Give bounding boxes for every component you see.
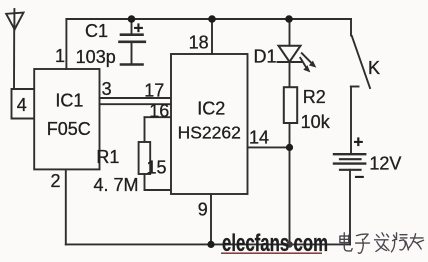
svg-text:10k: 10k <box>301 112 331 132</box>
watermark elecfans.com <box>221 230 328 257</box>
node D1 column bottom rail <box>286 241 293 248</box>
wire battery to bottom rail <box>349 170 351 245</box>
bottom rail wire <box>66 243 350 245</box>
node D1 on top rail <box>285 15 293 23</box>
IC2 box <box>171 54 248 194</box>
svg-text:16: 16 <box>149 101 169 121</box>
svg-text:R1: R1 <box>96 147 119 167</box>
antenna <box>6 9 23 30</box>
svg-text:18: 18 <box>189 33 209 53</box>
node pin9 bottom rail <box>207 241 214 248</box>
wire D1 top lead <box>289 19 291 46</box>
svg-text:3: 3 <box>102 79 112 99</box>
battery 12V <box>334 154 365 170</box>
wire pin 9 of IC2 down <box>210 194 212 244</box>
node pin14 / R2 <box>286 144 293 151</box>
wire pin 2 of IC1 down <box>65 169 67 244</box>
wire pin 15 <box>145 189 172 191</box>
svg-text:14: 14 <box>249 128 269 148</box>
svg-text:17: 17 <box>144 81 164 101</box>
wire pin 14 of IC2 <box>248 146 290 148</box>
svg-text:1: 1 <box>55 46 65 66</box>
wire R1 bottom lead <box>144 174 146 190</box>
svg-text:C1: C1 <box>85 21 108 41</box>
svg-text:103p: 103p <box>76 47 116 67</box>
IC1 U-box <box>34 69 99 169</box>
wire pin 1 of IC1 to top rail <box>65 19 67 69</box>
svg-text:12V: 12V <box>369 154 401 174</box>
node C1 on top rail <box>128 15 136 23</box>
pin 4 box of IC1 <box>12 89 35 119</box>
svg-text:9: 9 <box>198 200 208 220</box>
wire R2 to node <box>289 123 291 147</box>
switch K <box>351 19 370 154</box>
wire pin 18 of IC2 to top rail <box>211 19 213 54</box>
wire R1 top lead <box>144 117 146 142</box>
wire pin 16 box bottom <box>145 116 172 118</box>
svg-text:4. 7M: 4. 7M <box>93 175 138 195</box>
resistor R1 body <box>139 142 151 174</box>
resistor R2 body <box>284 87 297 123</box>
svg-text:F05C: F05C <box>47 119 91 139</box>
wire D1 to R2 <box>289 62 291 87</box>
svg-text:+: + <box>134 19 144 38</box>
watermark chinese characters <box>340 233 424 254</box>
svg-text:−: − <box>355 168 365 187</box>
svg-text:K: K <box>368 58 380 78</box>
wire pin 3 to pin 17 <box>100 97 172 99</box>
wire node to bottom rail <box>289 147 291 244</box>
node pin18 on top rail <box>208 15 216 23</box>
svg-text:+: + <box>353 133 363 152</box>
LED D1 <box>278 46 302 62</box>
capacitor C1 <box>120 35 145 42</box>
wire antenna stem to pin 4 <box>13 30 15 90</box>
svg-text:IC1: IC1 <box>55 91 83 111</box>
svg-text:15: 15 <box>146 157 166 177</box>
svg-text:4: 4 <box>17 95 27 115</box>
wire C1 top lead <box>131 19 133 35</box>
svg-text:D1: D1 <box>253 46 276 66</box>
svg-text:IC2: IC2 <box>197 98 225 118</box>
svg-text:R2: R2 <box>303 87 326 107</box>
wire lower parallel (pin 16 box top) <box>100 103 172 105</box>
LED D1 light arrows <box>300 53 311 67</box>
svg-text:HS2262: HS2262 <box>178 123 241 143</box>
svg-text:2: 2 <box>50 171 60 191</box>
top rail wire <box>66 18 351 20</box>
